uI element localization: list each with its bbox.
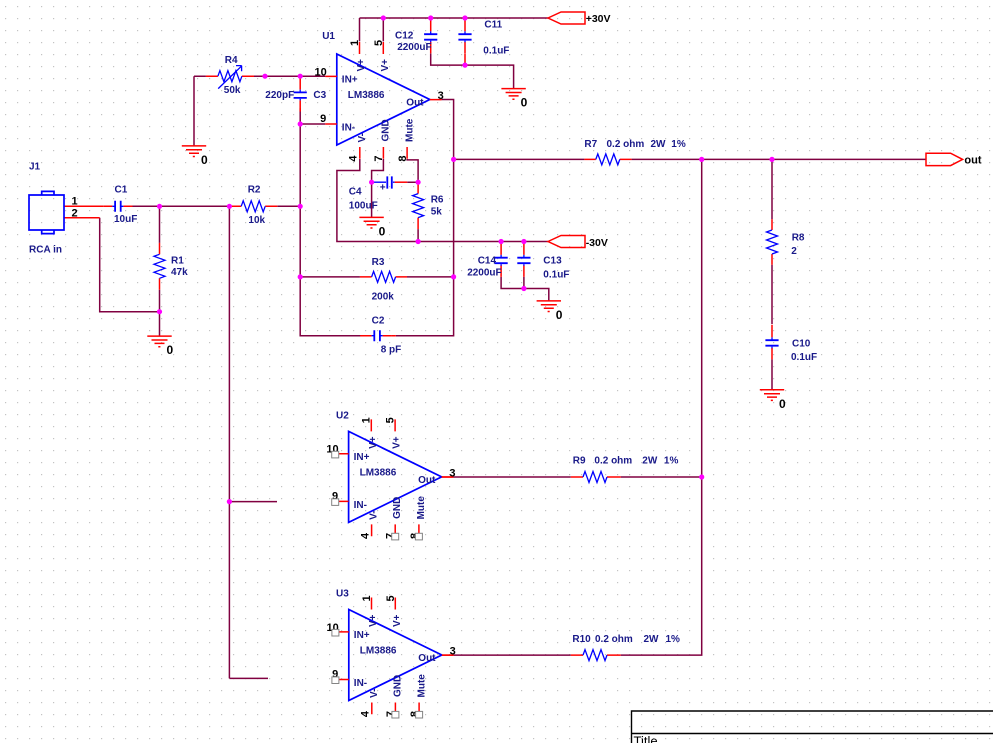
svg-text:+30V: +30V [586, 13, 611, 25]
svg-text:8 pF: 8 pF [381, 345, 402, 356]
svg-text:1%: 1% [664, 456, 679, 467]
svg-text:47k: 47k [171, 267, 188, 278]
svg-text:out: out [964, 154, 981, 166]
svg-text:R2: R2 [248, 185, 261, 196]
svg-text:C14: C14 [478, 256, 497, 267]
svg-text:2W: 2W [651, 139, 667, 150]
svg-text:C3: C3 [313, 90, 326, 101]
svg-text:0.2 ohm: 0.2 ohm [595, 634, 633, 645]
svg-text:0.1uF: 0.1uF [543, 269, 569, 280]
svg-text:2: 2 [791, 246, 797, 257]
svg-text:2200uF: 2200uF [467, 267, 501, 278]
svg-text:R9: R9 [573, 456, 586, 467]
svg-text:0.2 ohm: 0.2 ohm [594, 456, 632, 467]
svg-text:100uF: 100uF [349, 201, 378, 212]
svg-text:R3: R3 [372, 257, 385, 268]
svg-text:R8: R8 [792, 233, 805, 244]
svg-text:R4: R4 [225, 55, 238, 66]
svg-text:C1: C1 [115, 185, 128, 196]
svg-text:220pF: 220pF [265, 90, 294, 101]
svg-text:U2: U2 [336, 411, 349, 422]
svg-text:5k: 5k [431, 206, 443, 217]
svg-text:-30V: -30V [586, 237, 608, 249]
svg-text:R10: R10 [572, 634, 591, 645]
svg-text:C11: C11 [484, 19, 502, 30]
svg-text:1%: 1% [671, 139, 686, 150]
svg-text:1: 1 [72, 196, 78, 208]
svg-text:R6: R6 [431, 194, 444, 205]
svg-text:2200uF: 2200uF [397, 42, 431, 53]
svg-text:Title: Title [634, 734, 658, 743]
svg-text:1%: 1% [666, 634, 681, 645]
svg-text:U1: U1 [322, 31, 335, 42]
svg-text:0.1uF: 0.1uF [791, 352, 817, 363]
svg-text:50k: 50k [224, 85, 241, 96]
svg-text:C12: C12 [395, 31, 414, 42]
svg-text:C13: C13 [543, 256, 562, 267]
svg-text:10k: 10k [248, 215, 265, 226]
svg-text:J1: J1 [29, 162, 41, 173]
svg-text:2: 2 [72, 207, 78, 219]
svg-text:C2: C2 [372, 316, 385, 327]
svg-text:C10: C10 [792, 338, 811, 349]
svg-text:R1: R1 [171, 256, 184, 267]
svg-text:2W: 2W [642, 456, 658, 467]
svg-text:+: + [380, 183, 386, 194]
svg-text:10uF: 10uF [114, 214, 137, 225]
svg-text:0.2 ohm: 0.2 ohm [607, 139, 645, 150]
svg-text:R7: R7 [584, 139, 597, 150]
svg-text:200k: 200k [372, 291, 395, 302]
svg-text:U3: U3 [336, 589, 349, 600]
svg-text:RCA in: RCA in [29, 244, 62, 255]
svg-text:0.1uF: 0.1uF [483, 46, 509, 57]
svg-text:2W: 2W [644, 634, 660, 645]
svg-text:C4: C4 [349, 187, 362, 198]
